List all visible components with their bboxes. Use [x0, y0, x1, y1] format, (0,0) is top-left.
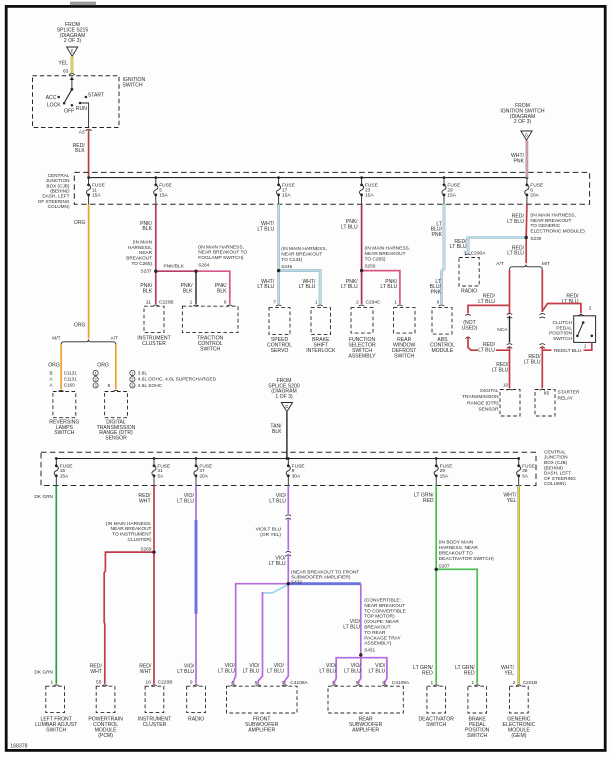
svg-text:OFF: OFF [64, 108, 74, 114]
variant marks 1 2 3 left [93, 370, 98, 388]
fuse 15 15A [54, 457, 72, 485]
label PNK/LT BLU defrost [380, 279, 397, 290]
connector pair MT [540, 314, 545, 319]
svg-text:4.6L SOHC: 4.6L SOHC [138, 383, 163, 389]
svg-text:(CONVERTIBLE:: (CONVERTIBLE: [364, 598, 401, 604]
cup starter relay pin [540, 389, 545, 390]
svg-text:C4108A: C4108A [290, 680, 308, 686]
instrument cluster name mid [137, 336, 170, 347]
svg-text:6: 6 [224, 299, 227, 305]
wire LT BLU/PNK from fuse 29 [442, 204, 445, 304]
svg-text:LT BLU: LT BLU [257, 284, 274, 290]
label A/T right [496, 261, 504, 267]
radio box bottom [187, 686, 206, 712]
svg-text:BLK: BLK [143, 288, 153, 294]
splice S264 [194, 270, 197, 273]
ABS control module name [430, 337, 455, 354]
speed control servo name [267, 337, 292, 354]
label RED/LT BLU radio [450, 239, 467, 250]
svg-text:5A: 5A [522, 473, 529, 479]
svg-text:CLUSTER: CLUSTER [143, 722, 167, 728]
svg-text:(PCM): (PCM) [98, 733, 113, 739]
wire VIO/LT BLU front amp 4 [234, 584, 289, 684]
svg-text:7: 7 [273, 299, 276, 305]
wire RED/LT BLU AT branch [509, 270, 511, 314]
svg-text:BLK: BLK [217, 288, 227, 294]
pins rear amp [332, 680, 410, 686]
wire DK GRN lumbar [55, 486, 57, 684]
fuse 6 20A [525, 176, 543, 204]
svg-text:DASH, LEFT: DASH, LEFT [544, 471, 571, 476]
wire RED/WHT to PCM [104, 552, 154, 684]
splice S256 note [365, 246, 411, 269]
cups front amp [231, 685, 288, 686]
svg-text:S256: S256 [365, 264, 376, 269]
svg-text:BREAKOUT: BREAKOUT [126, 256, 152, 261]
labels VIO/LT BLU rear amp [319, 663, 385, 674]
connector names C1131 C1131 C160 [64, 370, 78, 387]
splice S200 triangle D [281, 403, 292, 412]
label WHT/PNK [511, 153, 525, 164]
starter relay name [558, 389, 580, 401]
deactivator switch name [419, 717, 455, 728]
svg-text:9: 9 [190, 680, 193, 686]
svg-text:SWITCH: SWITCH [394, 353, 414, 359]
svg-text:LT BLU: LT BLU [257, 226, 274, 232]
svg-text:TO INSTRUMENT: TO INSTRUMENT [112, 532, 151, 538]
svg-text:NEAR BREAKOUT: NEAR BREAKOUT [365, 251, 406, 257]
svg-text:1: 1 [584, 344, 587, 350]
svg-text:SWITCH: SWITCH [553, 336, 572, 342]
label VIO/LT BLU mid2 [269, 555, 286, 566]
wire RED/WHT from fuse 31 [153, 486, 155, 553]
svg-text:LT BLU: LT BLU [177, 499, 194, 505]
instrument cluster name bottom [138, 717, 171, 728]
instrument cluster box bottom [145, 686, 164, 712]
svg-text:S264: S264 [198, 262, 209, 267]
svg-text:HARNESS, NEAR: HARNESS, NEAR [439, 545, 479, 551]
rear subwoofer amplifier box [328, 686, 403, 713]
radio name right [461, 289, 477, 295]
svg-text:LT BLU: LT BLU [492, 367, 509, 373]
pin 1 deactivator [431, 680, 434, 686]
svg-text:(IN MAIN HARNESS,: (IN MAIN HARNESS, [106, 521, 152, 527]
wire PNK/BLK to cluster pin 11 [155, 271, 157, 304]
wire RED/LT BLU from fuse 6 [525, 204, 528, 237]
splice S230 [525, 236, 528, 239]
pin 9 DTR [108, 383, 111, 389]
svg-text:(COUPE: NEAR: (COUPE: NEAR [364, 619, 399, 625]
svg-text:(GEM): (GEM) [511, 733, 526, 739]
svg-text:D: D [285, 404, 288, 409]
front subwoofer amplifier box [227, 686, 298, 713]
wire PNK/BLK to pin 6 [196, 271, 230, 304]
svg-text:PNK: PNK [514, 158, 525, 164]
splice S431 note [364, 598, 406, 653]
wire RED/LT BLU to starter relay [541, 346, 543, 388]
svg-text:LT BLU: LT BLU [299, 284, 316, 290]
wire RED/LT BLU to not-used [468, 305, 510, 313]
svg-text:LT BLU: LT BLU [269, 499, 286, 505]
wire VIO/LT BLU front amp 5 [258, 585, 288, 684]
label LT GRN/RED upper [414, 492, 434, 503]
pin 10 DTR [503, 382, 509, 388]
cup reversing lamps pin [58, 390, 63, 391]
svg-text:C1131: C1131 [64, 370, 78, 375]
pin 55 PCM [96, 680, 102, 686]
wire WHT/LT BLU to servo [277, 271, 280, 304]
svg-text:85: 85 [544, 391, 550, 397]
svg-text:15A: 15A [440, 473, 449, 479]
svg-text:DIGITAL: DIGITAL [480, 388, 499, 394]
pin A3 connector cup [86, 129, 92, 130]
splice S269 [152, 550, 155, 553]
wire LT GRN/RED to brake switch [436, 569, 477, 683]
svg-text:TRANSMISSION: TRANSMISSION [462, 394, 499, 400]
svg-text:LT BLU: LT BLU [269, 561, 286, 567]
svg-text:VIO/LT BLU: VIO/LT BLU [256, 526, 282, 532]
svg-text:ASSEMBLY: ASSEMBLY [348, 353, 376, 359]
wire RUN to pin A3 [80, 103, 89, 127]
wire VIO/LT BLU radio [195, 486, 197, 684]
svg-text:4.6L DOHC, 4.6L SUPERCHARGED: 4.6L DOHC, 4.6L SUPERCHARGED [138, 377, 217, 383]
svg-text:SENSOR: SENSOR [105, 436, 127, 442]
svg-text:15A: 15A [282, 192, 291, 198]
label RED/BLK [73, 143, 86, 154]
DTR sensor name left [97, 419, 136, 441]
label WHT/YEL lower [501, 665, 515, 676]
svg-text:1: 1 [472, 680, 475, 686]
svg-text:A/T: A/T [111, 336, 119, 342]
svg-text:RANGE (DTR): RANGE (DTR) [467, 400, 499, 406]
svg-text:S431: S431 [364, 647, 375, 652]
wire PNK/LT BLU from fuse 23 [361, 204, 363, 270]
svg-text:168378: 168378 [10, 743, 27, 749]
label M/T right [542, 261, 550, 267]
svg-text:S207: S207 [439, 564, 450, 569]
fuse 31 5A [152, 457, 170, 485]
svg-text:NEAR BREAKOUT: NEAR BREAKOUT [530, 218, 571, 224]
svg-text:TO GENERIC: TO GENERIC [530, 223, 560, 229]
svg-text:CENTRAL: CENTRAL [544, 449, 566, 454]
wire VIO/LT BLU mid [287, 517, 289, 550]
pin 1 clutch [584, 344, 587, 350]
reversing lamps switch box [53, 392, 76, 418]
ignition switch rotor [64, 88, 73, 103]
traction control switch box [182, 306, 238, 332]
splice G triangle [521, 131, 532, 140]
svg-text:SWITCH: SWITCH [200, 346, 220, 352]
pin 2 and C294C [356, 299, 381, 305]
fuse 5 15A [154, 176, 172, 204]
wire WHT/YEL GEM [517, 486, 520, 684]
svg-text:C294C: C294C [366, 299, 381, 305]
wire PNK/BLK splice branch [156, 270, 196, 272]
clutch pedal position switch box [574, 316, 596, 343]
splice S431 [359, 653, 362, 656]
svg-text:NEAR BREAKOUT: NEAR BREAKOUT [364, 603, 405, 609]
splice S237 note [126, 240, 152, 274]
wire RED/LT BLU to radio [468, 238, 526, 254]
svg-text:INTERLOCK: INTERLOCK [306, 348, 336, 354]
label LT GRN/RED brake [455, 665, 475, 676]
CJB2 name label [544, 449, 576, 486]
cup clutch pin 2 [578, 315, 583, 316]
radio name bottom [188, 717, 204, 723]
svg-text:S269: S269 [141, 546, 152, 551]
svg-text:(IN MAIN HARNESS,: (IN MAIN HARNESS, [365, 246, 411, 252]
pin 85 starter relay [544, 391, 550, 397]
cup interlock pin [317, 305, 322, 306]
reversing lamps switch name [49, 419, 79, 436]
svg-text:HARNESS,: HARNESS, [128, 245, 152, 250]
wire RED/LT BLU to brace [525, 238, 527, 264]
svg-text:(IN MAIN: (IN MAIN [133, 240, 152, 245]
label ORG DTR [97, 363, 109, 369]
svg-text:39: 39 [522, 468, 528, 474]
fuse 23 15A [359, 176, 377, 204]
label TAN/BLK [270, 424, 282, 435]
pin 63 connector cup [69, 74, 75, 75]
svg-text:PNK: PNK [431, 289, 442, 295]
svg-text:LT BLU: LT BLU [218, 669, 235, 675]
label ORG lower [74, 322, 86, 328]
label DK GRN lower [34, 670, 53, 676]
svg-text:START: START [88, 92, 104, 98]
starter relay box [535, 390, 555, 417]
svg-text:ORG: ORG [74, 322, 86, 328]
wire RED/LT BLU MT branch [541, 270, 543, 312]
brake shift interlock name [306, 337, 336, 354]
wire VIO/LT BLU rear amp 6 [361, 658, 387, 684]
DTR sensor box right [500, 390, 520, 417]
svg-text:S237: S237 [141, 269, 152, 274]
CJB2 bus wire [56, 458, 518, 460]
brake shift interlock box [311, 308, 331, 335]
wire ORG to reversing lamps switch [60, 345, 62, 390]
contact RUN [76, 102, 87, 112]
svg-text:15A: 15A [159, 192, 168, 198]
wire VIO/LT BLU rear amp 4 [335, 655, 361, 684]
svg-text:LT BLU: LT BLU [524, 359, 541, 365]
label RED/LT BLU not-used [478, 294, 495, 305]
svg-text:LT BLU: LT BLU [243, 669, 260, 675]
svg-text:15A: 15A [365, 192, 374, 198]
splice S432 [287, 582, 290, 585]
rear subwoofer amplifier name [349, 717, 383, 734]
svg-text:3.8L: 3.8L [138, 371, 148, 377]
svg-text:LT BLU: LT BLU [507, 251, 524, 257]
svg-text:NCA: NCA [497, 327, 508, 333]
svg-text:6: 6 [530, 187, 533, 193]
svg-text:A3: A3 [79, 130, 85, 136]
contact LOCK [47, 102, 66, 109]
svg-text:BREAKOUT TO: BREAKOUT TO [439, 551, 473, 557]
pin letters B A A [49, 370, 53, 387]
svg-text:SERVO: SERVO [271, 348, 289, 354]
svg-text:BLK: BLK [272, 429, 282, 435]
svg-text:2 OF 3): 2 OF 3) [514, 119, 532, 125]
wire WHT/PNK to fuse 6 [526, 141, 529, 178]
svg-text:(IN MAIN HARNESS,: (IN MAIN HARNESS, [281, 246, 327, 252]
svg-text:(IN BODY MAIN: (IN BODY MAIN [439, 540, 474, 546]
svg-text:RED: RED [423, 498, 434, 504]
svg-text:G: G [525, 132, 528, 137]
rear window defrost switch box [394, 308, 416, 334]
pin 6 ABS [437, 299, 440, 305]
brake pedal position switch name [465, 717, 490, 739]
label RED/WHT PCM [90, 664, 103, 675]
pin 1 traction [190, 299, 193, 305]
svg-text:ELECTRONIC MODULE): ELECTRONIC MODULE) [530, 229, 585, 235]
pin 10 and C220B [146, 680, 173, 686]
ABS control module box [432, 308, 452, 335]
svg-text:LT BLU: LT BLU [341, 284, 358, 290]
splice S246 note [281, 246, 327, 269]
wire PNK/LT BLU to selector [361, 271, 363, 304]
label RED/WHT upper [138, 493, 151, 504]
pin 3 and C290A [464, 251, 487, 257]
label VIO/LT BLU radio upper [177, 493, 194, 504]
cups rear amp [332, 685, 388, 686]
svg-text:20A: 20A [199, 473, 208, 479]
svg-text:RUN: RUN [76, 106, 87, 112]
svg-text:SWITCH: SWITCH [426, 722, 446, 728]
svg-text:TOP MOTOR): TOP MOTOR) [364, 614, 395, 620]
svg-text:YEL: YEL [504, 670, 514, 676]
svg-text:15: 15 [60, 468, 66, 474]
svg-text:BLK: BLK [142, 226, 152, 232]
svg-text:LT BLU: LT BLU [341, 224, 358, 230]
wire WHT/LT BLU from fuse 17 [277, 204, 280, 270]
svg-text:LT BLU: LT BLU [319, 669, 336, 675]
label RED/LT BLU upper [507, 214, 524, 225]
contact OFF [64, 104, 74, 114]
cup traction pin 6 [227, 305, 232, 306]
svg-text:TO C265): TO C265) [365, 256, 386, 262]
pins front amp [231, 680, 309, 686]
svg-text:S432: S432 [291, 580, 302, 585]
cup lumbar pin [54, 685, 59, 686]
wire VIO/LT BLU to rear amp [288, 584, 361, 655]
clutch switch contacts [576, 321, 593, 337]
svg-text:NEAR: NEAR [139, 250, 153, 255]
svg-text:15A: 15A [60, 473, 69, 479]
svg-text:1 OF 3): 1 OF 3) [275, 394, 293, 400]
front subwoofer amplifier name [245, 717, 279, 734]
wire ORG to DTR sensor [115, 345, 117, 390]
transmission split brace right [510, 265, 543, 270]
label RED/LT BLU clutch [562, 294, 579, 305]
svg-text:11: 11 [146, 299, 151, 305]
label NCA [497, 327, 508, 333]
label VIO/LT BLU radio lower [177, 664, 194, 675]
connector pair NCA top [507, 314, 512, 319]
powertrain control module name [88, 717, 123, 739]
label WHT/YEL upper [503, 492, 517, 503]
diagram number 168378 [10, 743, 27, 749]
svg-text:(OR YEL): (OR YEL) [260, 532, 281, 538]
svg-text:TO REAR: TO REAR [364, 630, 386, 636]
cup DTR pin [113, 390, 118, 391]
wire LT GRN/RED from fuse 22 [435, 486, 437, 570]
svg-text:5: 5 [159, 187, 162, 193]
svg-text:37: 37 [199, 468, 205, 474]
wire RED/LT BLU not-used return [468, 336, 510, 350]
svg-text:LT BLU: LT BLU [450, 244, 467, 250]
DTR sensor name right [462, 388, 499, 413]
svg-text:9: 9 [292, 468, 295, 474]
label WHT/LT BLU upper [257, 221, 274, 232]
svg-text:S246: S246 [281, 264, 292, 269]
ignition switch contact arrow [70, 77, 74, 90]
wire ORG from fuse 11 [88, 204, 90, 338]
svg-text:SWITCH: SWITCH [54, 430, 74, 436]
wire YEL from splice [71, 57, 74, 74]
wire RED/LT BLU to DTR10 [509, 346, 511, 388]
ignition switch box [33, 76, 120, 128]
fuse 17 15A [276, 176, 294, 204]
svg-text:M/T: M/T [542, 261, 550, 267]
svg-text:1: 1 [394, 299, 397, 305]
svg-text:CLUTCH: CLUTCH [553, 320, 573, 326]
svg-text:RED: RED [422, 670, 433, 676]
svg-text:9: 9 [108, 383, 111, 389]
splice S207 [435, 568, 438, 571]
svg-text:LT BLU: LT BLU [478, 347, 495, 353]
svg-text:3: 3 [464, 251, 467, 257]
traction control switch name [197, 336, 223, 353]
pin 1 interlock [315, 299, 318, 305]
svg-text:2: 2 [589, 306, 592, 312]
svg-text:LT BLU: LT BLU [343, 624, 360, 630]
wire WHT/LT BLU to interlock [279, 271, 321, 304]
cup cluster pin 11 [153, 305, 158, 306]
svg-text:(IN MAIN HARNESS,: (IN MAIN HARNESS, [530, 212, 576, 218]
wire NCA jumper [509, 316, 511, 343]
svg-text:30A: 30A [292, 473, 301, 479]
svg-text:6: 6 [437, 299, 440, 305]
label LT GRN/RED deact [413, 665, 433, 676]
label RED/LT BLU on return [552, 346, 584, 354]
fuse 11 15A [86, 176, 104, 204]
label NOT USED [462, 320, 478, 331]
label RED/WHT cluster [139, 664, 152, 675]
engine legend [130, 370, 217, 389]
svg-text:BOX (CJB): BOX (CJB) [544, 460, 568, 465]
label RED/LT BLU brace [507, 245, 524, 256]
splice S269 note [106, 521, 152, 552]
wire LT GRN/RED to deactivator [435, 569, 437, 683]
svg-text:15A: 15A [447, 192, 456, 198]
svg-text:1: 1 [315, 299, 318, 305]
label PNK/BLK branch [164, 264, 185, 270]
svg-text:SWITCH: SWITCH [467, 733, 487, 739]
cup traction pin 1 [193, 305, 198, 306]
wire VIO/LT BLU to S432 [287, 554, 289, 584]
pin 7 servo [273, 299, 276, 305]
cup deactivator pin [434, 685, 439, 686]
svg-text:STARTER: STARTER [558, 389, 580, 395]
rear window defrost switch name [392, 337, 416, 359]
svg-text:NEAR BREAKOUT TO: NEAR BREAKOUT TO [198, 250, 247, 256]
label PNK/BLK upper [140, 221, 152, 232]
generic electronic module box [510, 686, 529, 713]
cup not-used upper [465, 314, 470, 315]
svg-text:BLK: BLK [183, 288, 193, 294]
ignition switch name [123, 77, 146, 88]
label M/T left [52, 336, 60, 342]
